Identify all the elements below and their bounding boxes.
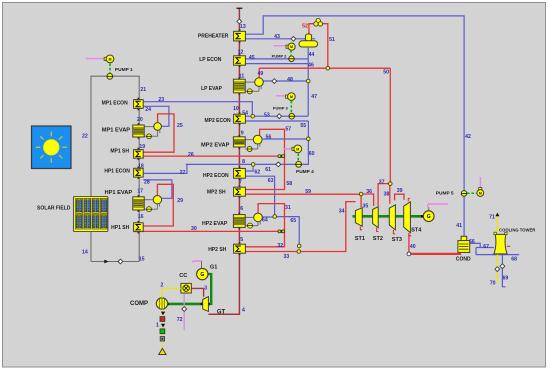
air line compressor to CC [162,288,181,297]
diamond on 48 [272,79,277,84]
drain node white circle [407,252,411,256]
svg-text:50: 50 [383,70,389,76]
svg-text:43: 43 [274,34,280,40]
wire 65 node to attemperator junction [275,217,300,248]
svg-text:MP1 ECON: MP1 ECON [102,100,129,106]
svg-text:3: 3 [204,285,207,291]
pump PUMP 3 motor [286,95,288,98]
wire 53 junction to pump 3 [245,115,289,117]
svg-text:32: 32 [277,243,283,249]
svg-text:HP2 EVAP: HP2 EVAP [202,221,228,227]
pump PUMP 2 [289,56,295,62]
separator MP1 [154,123,162,131]
svg-text:1: 1 [156,322,159,328]
wire ST2 drain [377,228,379,232]
turbine ST4 [404,202,411,233]
links HP1 drum separator pump [144,199,153,201]
svg-text:15: 15 [139,257,145,263]
condenser COND body [458,241,470,253]
pump PUMP 5 motor [479,188,482,190]
evaporator drum MP1 EVAP [138,123,140,125]
svg-text:HP2 SH: HP2 SH [208,247,226,253]
shaft nubs [201,303,203,305]
svg-text:ST4: ST4 [411,228,422,234]
fuel/air chain below compressor [161,309,163,348]
svg-text:CC: CC [179,273,187,279]
svg-text:38: 38 [384,192,390,198]
svg-text:PREHEATER: PREHEATER [198,33,229,39]
diamond on blowdown line [500,264,505,269]
svg-text:21: 21 [140,87,146,93]
heat exchanger MP1 ECON [138,98,140,100]
wire 30 HP1 SH steam join [143,230,284,232]
svg-text:64: 64 [262,218,268,224]
svg-text:71: 71 [489,215,495,221]
power line pump 2 [274,45,288,47]
valve on line 30 [278,230,285,233]
wire 35 to ST1 [360,194,362,207]
separator HP1 [153,196,161,204]
svg-text:68: 68 [511,256,517,262]
svg-text:16: 16 [138,214,144,220]
svg-text:27: 27 [180,170,186,176]
svg-text:70: 70 [490,280,496,286]
turbine ST1 [355,208,362,227]
pump PUMP 4 shaft [297,153,299,161]
recirculation pump LP [247,89,252,94]
wire 24 MP1 ECON to MP1 separator [143,106,169,126]
wire 39 ST3 to ST4 bridge [395,194,404,200]
svg-text:37: 37 [379,180,385,186]
wire 48 LP drum to rail [263,80,308,82]
fuel line lavender [183,293,185,330]
wire 46 LP ECON to deaerator rail [245,63,308,65]
svg-text:11: 11 [239,73,245,79]
links HP2 drum separator pump [245,216,254,218]
svg-text:59: 59 [305,189,311,195]
recirculation pump MP2 [247,147,252,152]
svg-text:35: 35 [363,204,369,210]
heat exchanger PREHEATER [239,29,241,31]
svg-text:46: 46 [308,63,314,69]
links LP drum separator pump [245,81,255,83]
power line pump 1 [86,58,103,60]
svg-text:48: 48 [287,77,293,83]
svg-text:45: 45 [249,55,255,61]
wire 26 MP1 SH steam join [143,155,284,157]
svg-text:PUMP 2: PUMP 2 [272,54,288,59]
svg-text:47: 47 [311,94,317,100]
svg-text:MP2 EVAP: MP2 EVAP [201,142,230,148]
svg-text:4: 4 [242,308,245,314]
wire flue gas main vertical [238,8,240,314]
svg-text:65: 65 [290,218,296,224]
turbine ST2 [373,207,379,228]
svg-text:COND: COND [456,257,471,263]
deaerator tank [299,41,318,47]
svg-text:5: 5 [240,237,243,243]
arrow on solar loop bottom [104,260,108,264]
pump PUMP 3 shaft [290,101,292,113]
svg-text:M: M [290,95,293,99]
svg-text:13: 13 [240,24,246,30]
svg-text:PUMP 5: PUMP 5 [436,191,454,197]
svg-text:60: 60 [309,151,315,157]
svg-text:41: 41 [456,223,462,229]
wire 67 to cooling tower [476,247,494,249]
svg-text:PUMP 1: PUMP 1 [115,67,133,73]
svg-text:20: 20 [137,117,143,123]
wire 50 LP steam downcomer [389,68,391,183]
wire 33 HP2 SH outlet [245,251,299,253]
condenser COND neck [461,236,467,240]
svg-text:22: 22 [82,134,88,140]
evaporator drum LP EVAP [238,77,240,79]
cooling tower [494,234,507,254]
svg-text:G: G [427,214,431,220]
svg-text:G: G [200,272,204,278]
svg-text:54: 54 [242,110,248,116]
svg-text:72: 72 [177,317,183,323]
diamond on solar loop bottom [118,259,123,264]
svg-text:31: 31 [285,205,291,211]
svg-text:30: 30 [191,226,197,232]
svg-text:ST2: ST2 [373,236,383,242]
pump PUMP 2 motor [286,45,288,48]
svg-text:2: 2 [161,283,164,289]
svg-text:18: 18 [138,164,144,170]
stack tick at flue top [236,7,242,9]
wire cooling tower makeup tick [507,245,510,247]
svg-text:26: 26 [188,152,194,158]
evaporator drum MP2 EVAP [238,135,240,137]
pump PUMP 5 shaft [467,192,476,194]
shaft GT to G1 [208,273,212,305]
svg-text:40: 40 [410,244,416,250]
heat exchanger HP2 ECON [239,167,241,169]
svg-text:53: 53 [264,112,270,118]
wire relief valve to dome [309,24,314,35]
svg-text:66: 66 [469,239,475,245]
wire GT exhaust to flue riser [208,313,240,315]
wire solar loop left rail [91,76,107,261]
wire deaerator down rail [307,48,309,116]
evaporator drum HP2 EVAP [238,213,240,215]
diamond on 43 [291,36,296,41]
wire 43 preheater to deaerator dome [245,38,315,40]
svg-text:61: 61 [265,167,271,173]
generator G1 [197,268,208,279]
wire 36 to ST2 [361,194,374,206]
valve on line 26 [278,155,285,158]
svg-text:PUMP 3: PUMP 3 [273,106,289,111]
svg-text:HP1 ECON: HP1 ECON [104,169,130,175]
diamond on flue line node 13 [237,19,242,24]
recirculation pump HP2 [248,223,253,228]
svg-text:51: 51 [329,37,335,43]
pump PUMP 1 shaft [109,63,111,73]
wire 40 ST4 exhaust down [409,233,411,252]
wire solar loop bottom [91,261,139,263]
power line pump 4 [284,148,294,150]
heat exchanger LP ECON [239,54,241,56]
wire 56 MP2 separator to rail [262,138,308,140]
svg-text:MP2 SH: MP2 SH [207,189,226,195]
svg-text:57: 57 [285,126,291,132]
power line generator G [428,204,448,207]
recirculation pump MP1 [147,134,152,139]
svg-text:55: 55 [300,123,306,129]
wire 44 pump 2 outlet to deaerator [294,58,308,60]
wire solar loop right rail (oil through HXs) [113,76,140,261]
fuel line CC to GT [191,288,203,296]
wire LP steam header to 50 [259,67,390,69]
svg-text:33: 33 [284,254,290,260]
wire 25 MP1 evap loop [143,114,174,152]
svg-text:HP1 EVAP: HP1 EVAP [104,190,132,196]
wire 69 cooling tower blowdown [502,255,505,287]
svg-text:56: 56 [266,134,272,140]
svg-text:PUMP 4: PUMP 4 [296,169,314,175]
wire 45 LP ECON to pump 2 [245,58,288,60]
svg-text:44: 44 [309,52,315,58]
pump PUMP 1 [107,73,113,79]
separator HP2 [254,213,263,222]
svg-text:52: 52 [302,24,308,30]
wire 37 to ST2 admission [378,184,390,206]
wire 66 condenser outlet [470,243,520,254]
turbine GT [203,297,209,312]
separator LP [255,78,264,87]
svg-text:HP1 SH: HP1 SH [111,225,129,231]
svg-text:29: 29 [177,198,183,204]
wire 27 HP1 ECON feed [143,164,187,173]
wire 59 MP2 SH outlet to turbines [245,193,361,195]
svg-text:23: 23 [158,97,164,103]
power line generator G1 [193,261,203,263]
svg-text:ST1: ST1 [355,236,365,242]
heat exchanger HP1 ECON [138,166,140,168]
svg-text:19: 19 [139,144,145,150]
svg-text:69: 69 [503,276,509,282]
wire 23 MP1 ECON to junction [143,102,252,117]
svg-text:MP2 ECON: MP2 ECON [204,118,231,124]
pump PUMP 4 motor [292,147,294,150]
svg-text:MP1 EVAP: MP1 EVAP [102,128,131,134]
svg-text:M: M [290,45,293,49]
wire 51 relief line [321,24,328,68]
wire ST1 drain [360,227,362,230]
wire 57 58 MP2 separator to MP2 SH [245,129,285,189]
svg-text:36: 36 [366,189,372,195]
wire ST3 drain [393,230,395,234]
wire 31 32 HP2 separator to HP2 SH [245,204,285,247]
svg-text:HP2 ECON: HP2 ECON [203,173,229,179]
heat exchanger HP1 SH [138,221,140,223]
wire 61 pump 4 discharge header [186,163,296,165]
svg-text:SOLAR FIELD: SOLAR FIELD [37,205,71,211]
wire 34 HP main steam to ST1 [299,202,356,252]
links MP1 drum separator pump [144,126,154,128]
svg-text:42: 42 [465,134,471,140]
svg-text:LP ECON: LP ECON [199,57,222,63]
air line cooling tower [496,216,498,284]
pump PUMP 5 [461,191,467,197]
svg-text:COOLING TOWER: COOLING TOWER [499,227,535,232]
wire rail MP2 to pump 4 [302,121,309,164]
svg-text:8: 8 [242,159,245,165]
diamond on 61 [276,162,281,167]
heat exchanger MP2 SH [239,185,241,187]
power line pump 5 [479,177,481,189]
power line pump 3 [276,95,286,97]
compressor COMP [156,298,167,309]
svg-text:24: 24 [145,107,151,113]
svg-text:7: 7 [239,179,242,185]
svg-text:LP EVAP: LP EVAP [201,86,223,92]
generator G [423,211,434,222]
wire 63 HP2 ECON outlet [246,176,275,216]
svg-text:34: 34 [339,209,345,215]
svg-text:M: M [109,57,112,61]
turbine ST3 [389,205,395,230]
svg-text:62: 62 [254,169,260,175]
wire 64 HP2 separator to node [262,216,274,218]
separator MP2 [253,135,262,144]
wire MP2 ECON outlet to rail [245,120,308,122]
diamond on tower air line [495,267,500,272]
svg-text:17: 17 [137,189,143,195]
svg-text:63: 63 [268,178,274,184]
pump PUMP 2 shaft [290,50,292,56]
svg-text:25: 25 [177,123,183,129]
pump PUMP 4 [296,161,302,167]
wire ST4 top stub [408,198,410,201]
deaerator dome [306,34,312,41]
evaporator drum HP1 EVAP [138,195,140,197]
heat exchanger MP1 SH [138,148,140,150]
wire 49 LP steam riser [258,68,260,78]
pump PUMP 1 motor [104,57,106,60]
svg-text:10: 10 [233,106,239,112]
svg-text:M: M [296,147,299,151]
svg-text:58: 58 [286,181,292,187]
svg-text:M: M [479,192,482,196]
links MP2 drum separator pump [245,139,253,141]
svg-text:67: 67 [483,244,489,250]
svg-text:39: 39 [397,188,403,194]
wire pump 3 outlet elbow [295,115,309,117]
wire 38 to ST3 [389,184,391,204]
svg-text:G1: G1 [210,264,217,270]
svg-text:9: 9 [241,131,244,137]
svg-text:MP1 SH: MP1 SH [110,149,129,155]
recirculation pump HP1 [147,207,152,212]
svg-text:COMP: COMP [130,301,148,307]
wire 29 HP1 evap loop [143,184,173,226]
svg-text:49: 49 [258,71,264,77]
svg-text:12: 12 [238,49,244,55]
svg-text:28: 28 [144,179,150,185]
shaft compressor to GT [168,303,202,306]
solar field collectors [74,197,108,232]
pump PUMP 3 [289,113,295,119]
svg-text:6: 6 [240,206,243,212]
svg-text:ST3: ST3 [392,237,402,243]
wire 42 condensate main: preheater to pump 5 [245,16,464,237]
wire 28 HP1 ECON to HP1 separator [143,180,172,198]
shaft steam turbine train [353,215,424,218]
svg-text:GT: GT [217,310,226,316]
diamond on 53 [277,114,282,119]
heat exchanger MP2 ECON [239,112,241,114]
node dots [326,66,330,70]
relief valve 52 [316,18,320,22]
heat exchanger HP2 SH [239,242,241,244]
wire 40 exhaust to condenser [409,253,461,255]
svg-text:14: 14 [82,250,88,256]
wire 62 junction to HP2 ECON [246,164,254,171]
sun icon [32,126,72,169]
combustion chamber CC [181,283,191,293]
